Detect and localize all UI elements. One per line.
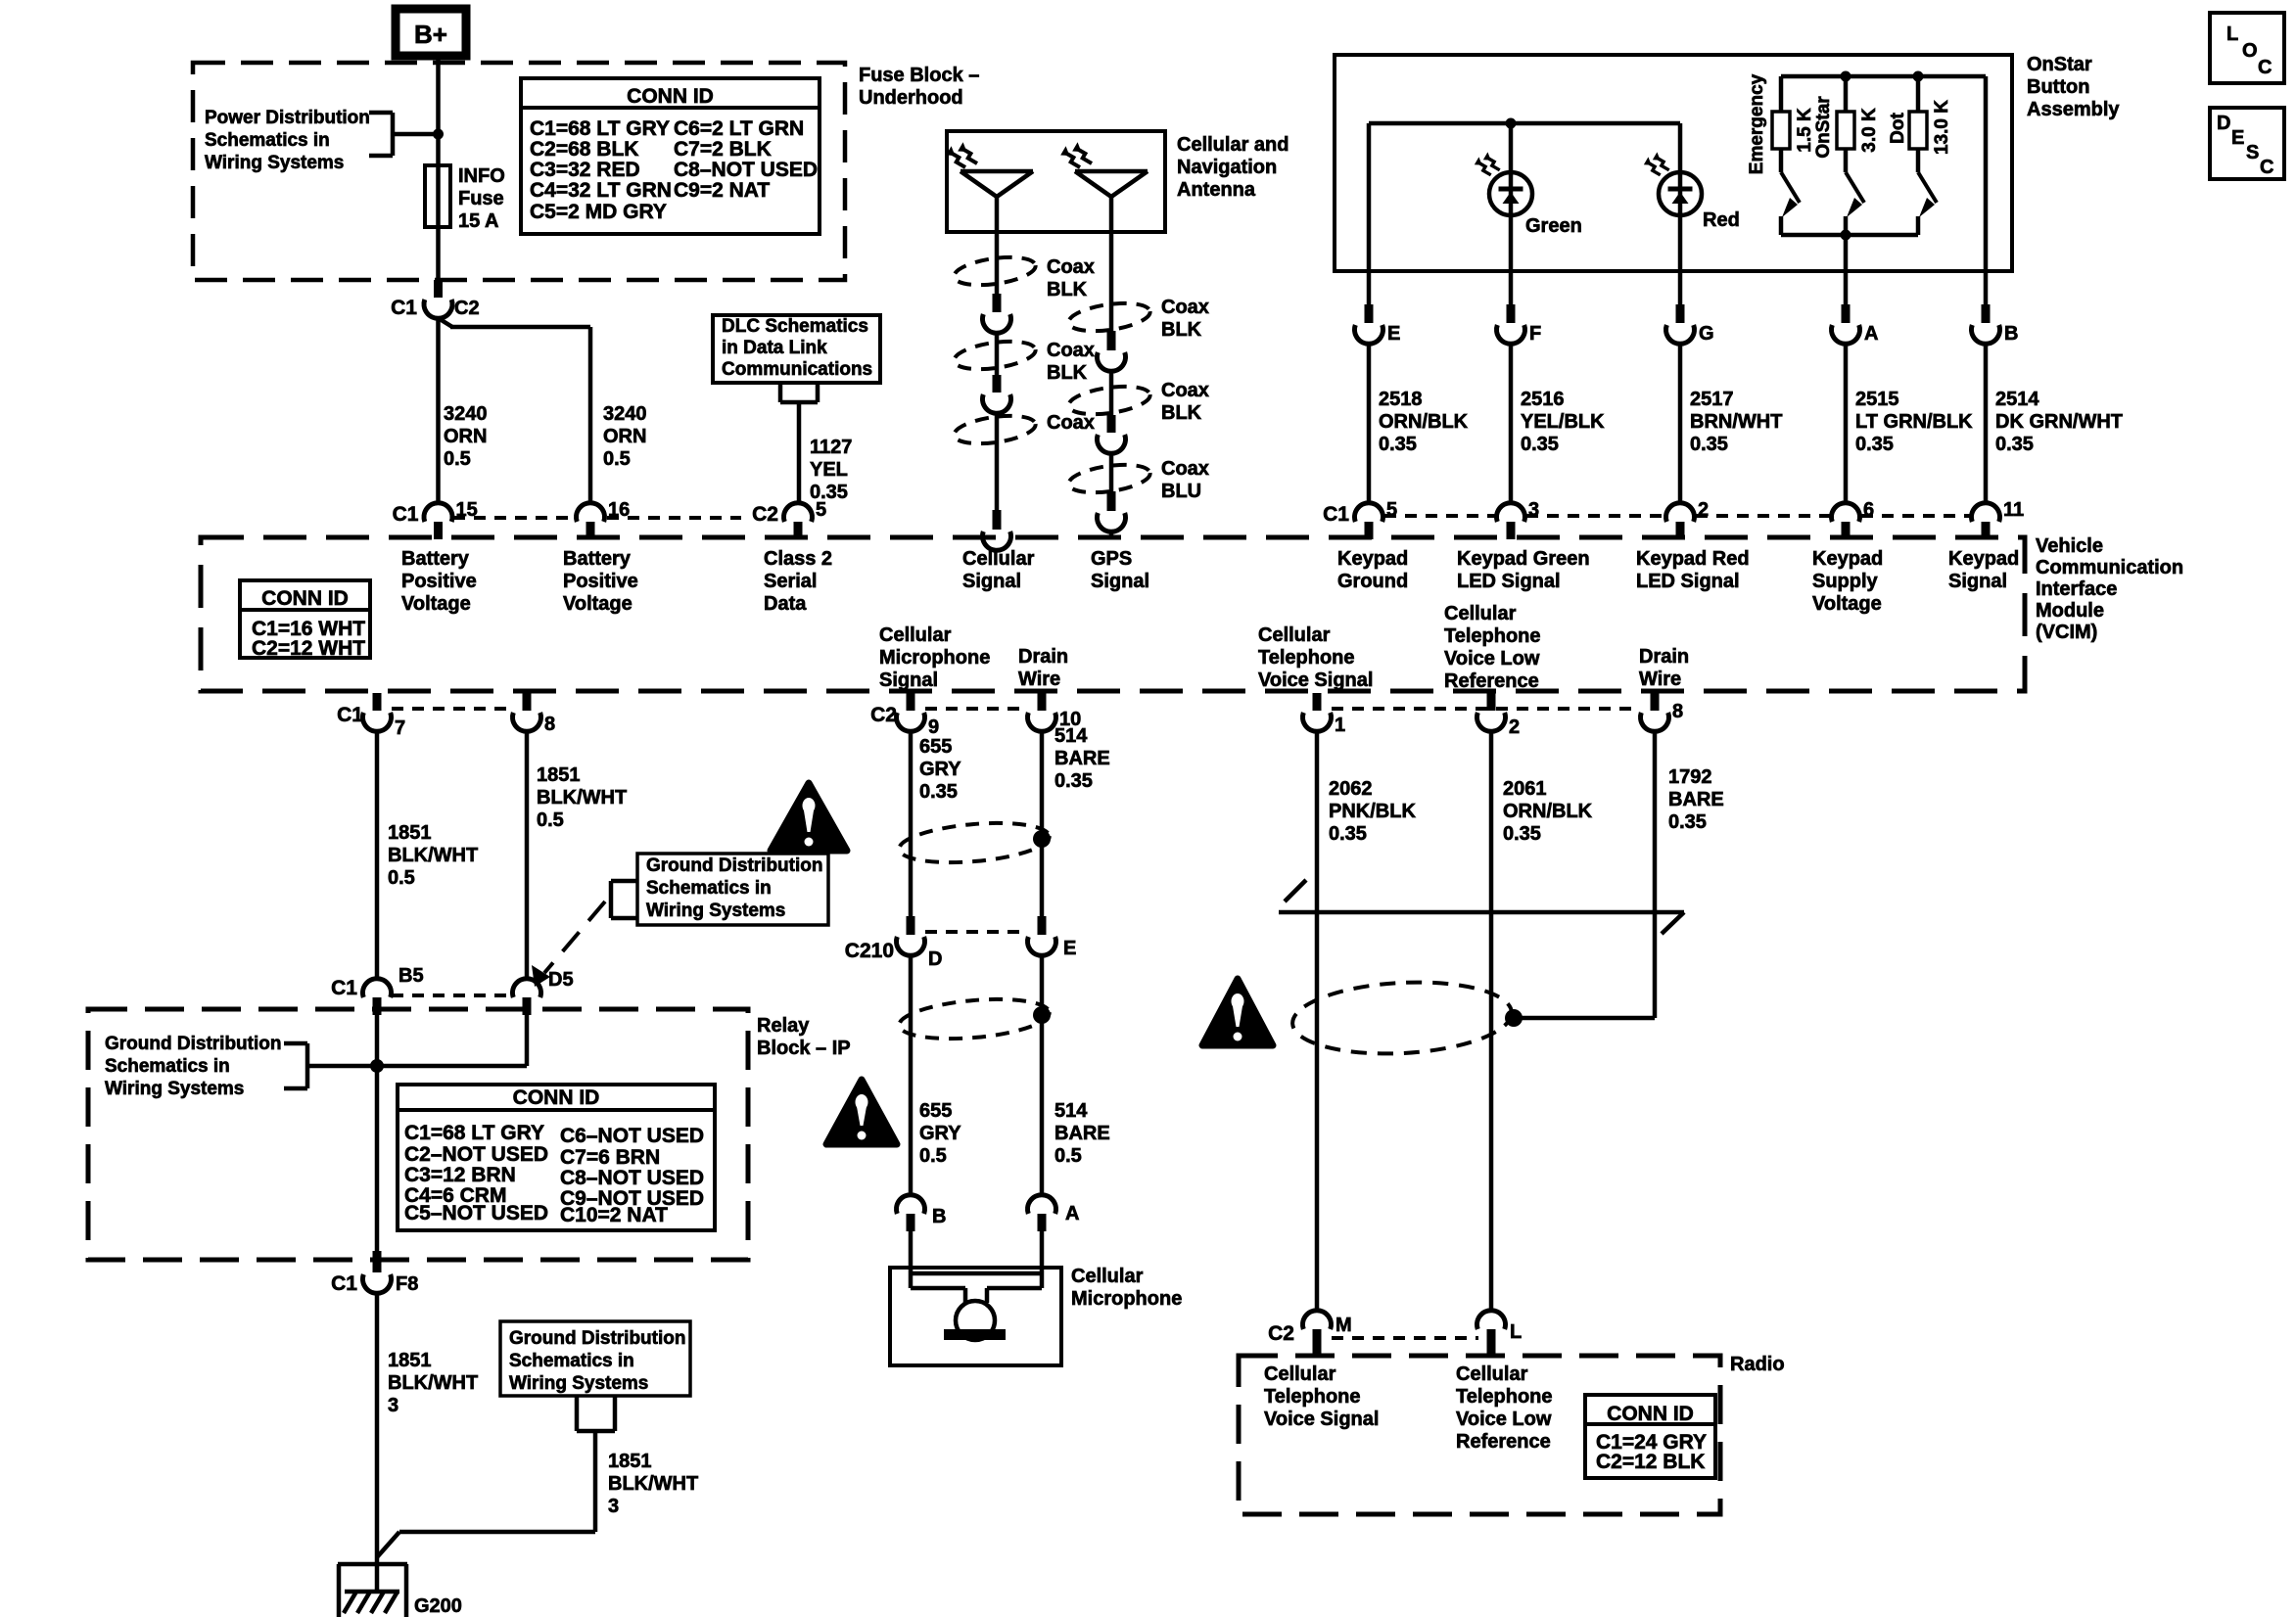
svg-text:CONN ID: CONN ID: [513, 1086, 600, 1109]
svg-text:KeypadGround: KeypadGround: [1337, 548, 1408, 592]
svg-text:M: M: [1335, 1315, 1352, 1336]
svg-text:C10=2 NAT: C10=2 NAT: [560, 1204, 668, 1226]
svg-text:C3=32 RED: C3=32 RED: [530, 159, 640, 181]
svg-text:1: 1: [1335, 715, 1345, 736]
svg-text:11: 11: [2003, 499, 2024, 521]
svg-text:E: E: [1387, 323, 1400, 345]
svg-text:1.5 K: 1.5 K: [1795, 108, 1815, 153]
svg-text:CONN ID: CONN ID: [627, 85, 714, 108]
svg-text:C210: C210: [845, 940, 894, 962]
svg-text:Radio: Radio: [1730, 1354, 1785, 1375]
svg-text:CONN ID: CONN ID: [1607, 1403, 1694, 1425]
svg-text:C1: C1: [393, 503, 419, 526]
svg-text:C2: C2: [454, 298, 480, 319]
svg-text:KeypadSupplyVoltage: KeypadSupplyVoltage: [1812, 548, 1883, 615]
svg-text:C1: C1: [337, 704, 363, 726]
svg-text:CONN ID: CONN ID: [261, 587, 349, 610]
svg-text:C9=2 NAT: C9=2 NAT: [674, 179, 770, 202]
svg-text:5: 5: [816, 499, 826, 521]
svg-text:7: 7: [395, 717, 405, 739]
svg-text:C2: C2: [870, 704, 897, 726]
svg-text:F8: F8: [396, 1273, 418, 1295]
svg-text:C1: C1: [391, 297, 417, 319]
svg-text:Emergency: Emergency: [1747, 73, 1767, 174]
svg-text:3.0 K: 3.0 K: [1859, 108, 1880, 153]
svg-text:BatteryPositiveVoltage: BatteryPositiveVoltage: [401, 548, 477, 615]
svg-text:G200: G200: [414, 1595, 462, 1617]
svg-text:Fuse Block –Underhood: Fuse Block –Underhood: [859, 65, 979, 109]
svg-text:Red: Red: [1703, 209, 1740, 231]
svg-text:Coax: Coax: [1047, 412, 1095, 434]
svg-text:C6–NOT USED: C6–NOT USED: [560, 1125, 704, 1147]
svg-text:D: D: [928, 948, 942, 970]
svg-text:C2=12 WHT: C2=12 WHT: [252, 637, 365, 660]
svg-text:C2=12 BLK: C2=12 BLK: [1596, 1451, 1705, 1473]
svg-text:9: 9: [928, 716, 939, 738]
svg-text:C7=6 BRN: C7=6 BRN: [560, 1146, 660, 1169]
svg-text:B: B: [932, 1206, 946, 1227]
svg-text:C: C: [2258, 57, 2272, 78]
svg-text:C5–NOT USED: C5–NOT USED: [404, 1202, 548, 1224]
svg-text:1127YEL0.35: 1127YEL0.35: [810, 437, 852, 503]
svg-text:INFOFuse15 A: INFOFuse15 A: [458, 165, 505, 232]
svg-text:L: L: [1510, 1321, 1522, 1343]
svg-text:C8–NOT USED: C8–NOT USED: [674, 159, 818, 181]
svg-text:G: G: [1699, 323, 1714, 345]
svg-text:F: F: [1529, 323, 1541, 345]
svg-text:A: A: [1864, 323, 1878, 345]
svg-text:C1: C1: [331, 1272, 357, 1295]
svg-text:C2=68 BLK: C2=68 BLK: [530, 138, 638, 161]
svg-text:C1=68 LT GRY: C1=68 LT GRY: [404, 1122, 544, 1144]
svg-text:C5=2 MD GRY: C5=2 MD GRY: [530, 201, 667, 223]
svg-text:C3=12 BRN: C3=12 BRN: [404, 1164, 516, 1186]
svg-text:O: O: [2242, 40, 2258, 62]
svg-text:BatteryPositiveVoltage: BatteryPositiveVoltage: [563, 548, 638, 615]
svg-text:C1: C1: [1323, 503, 1349, 526]
svg-text:OnStar: OnStar: [1813, 96, 1834, 159]
svg-text:Dot: Dot: [1888, 113, 1908, 144]
svg-text:C7=2 BLK: C7=2 BLK: [674, 138, 772, 161]
svg-text:C4=32 LT GRN: C4=32 LT GRN: [530, 179, 672, 202]
svg-text:C: C: [2260, 157, 2273, 178]
svg-text:C8–NOT USED: C8–NOT USED: [560, 1167, 704, 1189]
svg-text:S: S: [2246, 142, 2259, 163]
svg-text:B+: B+: [414, 20, 447, 49]
svg-text:C2: C2: [752, 503, 778, 526]
svg-text:A: A: [1065, 1203, 1079, 1224]
svg-text:Green: Green: [1525, 215, 1582, 237]
svg-text:E: E: [1063, 938, 1076, 959]
svg-text:C2–NOT USED: C2–NOT USED: [404, 1143, 548, 1166]
svg-text:8: 8: [1672, 701, 1683, 722]
svg-text:B: B: [2004, 323, 2018, 345]
svg-text:C2: C2: [1268, 1322, 1294, 1345]
svg-text:13.0 K: 13.0 K: [1932, 100, 1952, 155]
svg-text:C1=68 LT GRY: C1=68 LT GRY: [530, 117, 670, 140]
svg-text:C6=2 LT GRN: C6=2 LT GRN: [674, 117, 804, 140]
svg-text:L: L: [2226, 23, 2238, 45]
svg-text:D: D: [2217, 113, 2230, 134]
svg-text:8: 8: [544, 714, 555, 735]
svg-text:E: E: [2231, 127, 2244, 149]
svg-text:2: 2: [1509, 716, 1520, 738]
svg-text:D5: D5: [548, 969, 574, 991]
svg-text:Keypad RedLED Signal: Keypad RedLED Signal: [1636, 548, 1750, 592]
svg-text:C1: C1: [331, 977, 357, 999]
svg-text:B5: B5: [398, 965, 424, 987]
